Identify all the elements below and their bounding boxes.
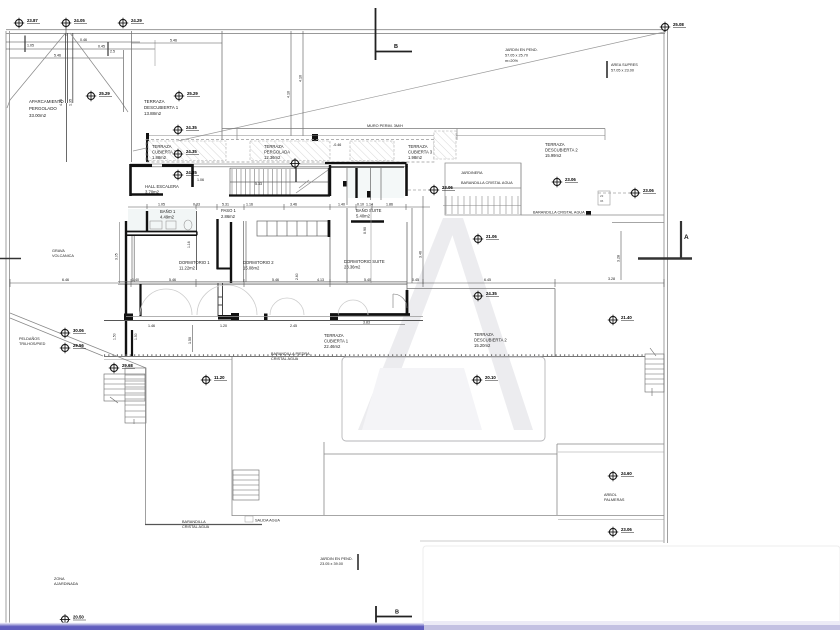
svg-text:CRISTAL AGUA: CRISTAL AGUA xyxy=(182,525,210,529)
svg-text:23.05 x 39.00: 23.05 x 39.00 xyxy=(320,562,343,566)
dashed leader to benchmark xyxy=(598,192,630,194)
svg-text:1.50: 1.50 xyxy=(113,333,117,340)
svg-text:TERRAZA: TERRAZA xyxy=(264,144,284,149)
svg-text:JARDIN EN PEND.: JARDIN EN PEND. xyxy=(320,557,353,561)
svg-text:4.13: 4.13 xyxy=(317,278,324,282)
svg-text:11.22m2: 11.22m2 xyxy=(179,266,196,271)
svg-text:5.33: 5.33 xyxy=(255,182,262,186)
wall house outer left xyxy=(125,221,127,284)
right inner edge of aparcamiento xyxy=(123,50,125,112)
jardinera louvre ticks xyxy=(443,196,521,214)
svg-text:1.86: 1.86 xyxy=(386,203,393,207)
vertical dim 8.46 right side xyxy=(620,231,622,280)
svg-text:06: 06 xyxy=(600,199,604,203)
white overlay card bottom right xyxy=(423,546,840,624)
right area hline y444 xyxy=(557,443,664,445)
site boundary top lines xyxy=(6,30,665,34)
svg-text:2.86m2: 2.86m2 xyxy=(221,214,236,219)
svg-text:CUBIERTA 3: CUBIERTA 3 xyxy=(408,150,433,155)
svg-text:DORMITORIO SUITE: DORMITORIO SUITE xyxy=(344,259,385,264)
garden boundary vertical x232 xyxy=(231,357,233,516)
interior dim row 2 xyxy=(148,324,297,328)
top-left dimension labels xyxy=(27,38,115,58)
benchmark labels top xyxy=(27,18,684,27)
short line right xyxy=(612,222,664,224)
svg-text:ARBOL: ARBOL xyxy=(604,493,617,497)
benchmark 23.06 bottom xyxy=(608,527,618,537)
stair top wall stub xyxy=(295,161,297,182)
pergola roof diagonals xyxy=(7,33,128,112)
svg-text:24.35: 24.35 xyxy=(186,170,197,175)
svg-text:5.40: 5.40 xyxy=(364,278,371,282)
grava volcanica label xyxy=(52,249,74,258)
label peldanos xyxy=(19,336,46,346)
svg-text:CRISTAL AGUA: CRISTAL AGUA xyxy=(271,357,299,361)
dorm1 left inner wall thin xyxy=(132,236,134,282)
left boundary tick xyxy=(0,258,21,260)
suite closet thin lines xyxy=(347,168,381,205)
svg-text:HALL ESCALERA: HALL ESCALERA xyxy=(145,184,179,189)
svg-text:5.40m2: 5.40m2 xyxy=(356,214,371,219)
svg-text:20.10: 20.10 xyxy=(485,375,496,380)
benchmark 30.06 xyxy=(60,328,70,338)
svg-text:11.20: 11.20 xyxy=(214,375,225,380)
svg-text:24.35: 24.35 xyxy=(486,291,497,296)
door arcs bedroom south wall xyxy=(140,285,368,315)
muro perimetral line xyxy=(222,128,605,130)
svg-text:5.46: 5.46 xyxy=(54,54,61,58)
svg-text:6.45: 6.45 xyxy=(484,278,491,282)
svg-text:JARDIN EN PEND.: JARDIN EN PEND. xyxy=(505,48,538,52)
svg-text:29.68: 29.68 xyxy=(122,363,133,368)
wall below hall xyxy=(130,193,163,196)
svg-text:23: 23 xyxy=(600,194,604,198)
svg-text:24.35: 24.35 xyxy=(186,149,197,154)
svg-text:24.29: 24.29 xyxy=(131,18,142,23)
svg-text:B: B xyxy=(395,610,399,616)
dimension labels row xyxy=(158,203,393,207)
svg-text:1.88m2: 1.88m2 xyxy=(152,155,167,160)
suite left wall thin xyxy=(346,208,348,283)
svg-text:BARANDILLA CRISTAL AGUA: BARANDILLA CRISTAL AGUA xyxy=(461,181,513,185)
benchmark 29.68 xyxy=(109,363,119,373)
driveway diagonal edge xyxy=(10,313,146,368)
pergola hatch box 3 xyxy=(350,141,394,161)
bano right thin wall xyxy=(196,211,198,270)
pergola hatched band outline xyxy=(146,140,434,163)
svg-text:BARANDILLA CRISTAL AGUA: BARANDILLA CRISTAL AGUA xyxy=(533,211,585,215)
room label terraza cubierta 3 xyxy=(408,144,433,160)
svg-text:1.40: 1.40 xyxy=(338,203,345,207)
svg-text:3.83: 3.83 xyxy=(363,321,370,325)
lower terrace rect right part xyxy=(407,289,555,357)
svg-text:30.06: 30.06 xyxy=(73,328,84,333)
suite closet posts xyxy=(343,181,347,187)
svg-text:BAÑO SUITE: BAÑO SUITE xyxy=(356,208,382,213)
svg-text:13.88m2: 13.88m2 xyxy=(144,111,162,116)
svg-text:1.35: 1.35 xyxy=(69,99,73,106)
stair box outline xyxy=(230,168,329,195)
zona ajardinada label xyxy=(54,577,79,586)
svg-text:TERRAZA: TERRAZA xyxy=(324,333,344,338)
svg-text:PASO 1: PASO 1 xyxy=(221,208,236,213)
benchmark 20.10 pool xyxy=(472,375,482,385)
benchmark 23.06 right of house xyxy=(429,185,439,195)
top-left dimension lines xyxy=(6,28,155,58)
lower terrace inner rect xyxy=(324,442,557,515)
svg-text:5.46: 5.46 xyxy=(169,278,176,282)
svg-text:24.05: 24.05 xyxy=(74,18,85,23)
svg-text:15.08m2: 15.08m2 xyxy=(243,266,260,271)
svg-text:DESCUBIERTA 2: DESCUBIERTA 2 xyxy=(474,338,507,343)
jardin en pend bottom label xyxy=(320,557,353,566)
top dim verticals 4.10 xyxy=(291,31,303,136)
small planter box right xyxy=(598,191,610,205)
garden boundary left xyxy=(145,368,147,525)
bedroom window bottom wall thin lines xyxy=(118,282,407,285)
second roof edge line xyxy=(146,135,605,137)
room label hall escalera xyxy=(145,184,179,195)
svg-text:0.46: 0.46 xyxy=(80,38,87,42)
wall below bano1 double xyxy=(126,231,197,233)
svg-text:SALIDA AGUA: SALIDA AGUA xyxy=(255,519,280,523)
terrace inner wall xyxy=(139,284,141,316)
svg-text:1.16: 1.16 xyxy=(246,203,253,207)
svg-text:25.08: 25.08 xyxy=(673,22,684,27)
svg-text:1.20: 1.20 xyxy=(220,324,227,328)
svg-text:m=20%: m=20% xyxy=(505,59,519,63)
wall post end of barandilla xyxy=(586,211,591,216)
barandilla cristal agua line xyxy=(521,214,664,216)
svg-text:24.60: 24.60 xyxy=(621,471,632,476)
svg-text:DORMITORIO 2: DORMITORIO 2 xyxy=(243,260,274,265)
svg-text:3.46: 3.46 xyxy=(290,203,297,207)
benchmark 21.06 xyxy=(473,234,483,244)
terraza descubierta 1 right line xyxy=(221,31,223,140)
benchmark 24.35 upper xyxy=(173,125,183,135)
svg-text:0.90: 0.90 xyxy=(363,227,367,234)
svg-text:21.40: 21.40 xyxy=(621,315,632,320)
svg-text:0.45: 0.45 xyxy=(412,278,419,282)
room label dormitorio suite xyxy=(344,259,385,270)
benchmark small 24.05 top of stairs xyxy=(290,158,300,168)
svg-text:5.46: 5.46 xyxy=(170,39,177,43)
dorm2/suite divider xyxy=(329,237,331,282)
svg-text:GRAVA: GRAVA xyxy=(52,249,65,253)
svg-text:5.46: 5.46 xyxy=(272,278,279,282)
svg-text:6.46: 6.46 xyxy=(62,278,69,282)
svg-text:ZONA: ZONA xyxy=(54,577,65,581)
pool xyxy=(342,357,545,441)
room label terraza descubierta 1 xyxy=(144,99,179,116)
svg-text:1.05: 1.05 xyxy=(27,44,34,48)
salida agua xyxy=(245,516,253,522)
svg-text:0.10: 0.10 xyxy=(357,203,364,207)
svg-text:1.14: 1.14 xyxy=(366,203,373,207)
benchmark 23.06 in terraza descubierta 2 xyxy=(552,177,562,187)
room label terraza descubierta 2 upper xyxy=(545,142,578,158)
terrace left wall twin xyxy=(131,330,133,356)
svg-text:CUBIERTA 1: CUBIERTA 1 xyxy=(324,339,349,344)
benchmark 11.20 xyxy=(201,375,211,385)
svg-text:BARANDILLA: BARANDILLA xyxy=(182,520,206,524)
arbol palmeras right section xyxy=(558,451,664,453)
svg-text:23.06: 23.06 xyxy=(643,188,654,193)
svg-text:0.33: 0.33 xyxy=(193,203,200,207)
room label terraza cubierta 1 xyxy=(324,333,349,349)
svg-text:15.20m2: 15.20m2 xyxy=(474,343,491,348)
suite dim 3.83 xyxy=(330,324,405,326)
svg-text:23.36m2: 23.36m2 xyxy=(344,265,361,270)
suite door arc xyxy=(393,294,407,308)
svg-text:3.05: 3.05 xyxy=(115,253,119,260)
closet right thick wall xyxy=(328,220,331,237)
svg-text:4.49m2: 4.49m2 xyxy=(160,215,175,220)
svg-text:2.45: 2.45 xyxy=(290,324,297,328)
svg-text:24.35: 24.35 xyxy=(186,125,197,130)
wall hall left xyxy=(129,164,132,196)
faint bottom fence line xyxy=(420,540,664,542)
right stair xyxy=(645,348,664,396)
section A marker xyxy=(638,221,692,259)
vertical dim 3.46 right of suite xyxy=(422,196,424,284)
suite top wall double xyxy=(325,162,407,164)
benchmark 20.50 bottom xyxy=(60,614,70,624)
svg-text:1.40: 1.40 xyxy=(132,278,139,282)
wall paso right xyxy=(230,222,232,283)
room label dormitorio 1 xyxy=(179,260,210,271)
site boundary right double line xyxy=(664,28,668,543)
svg-text:PALMERAS: PALMERAS xyxy=(604,498,625,502)
svg-text:1.05: 1.05 xyxy=(158,203,165,207)
chimney ladder xyxy=(218,283,223,316)
svg-text:DORMITORIO 1: DORMITORIO 1 xyxy=(179,260,210,265)
jardinera box xyxy=(445,163,521,215)
closet dorm2 xyxy=(257,221,328,236)
exterior switchback stair xyxy=(104,368,146,424)
bath fixtures xyxy=(150,220,192,230)
main dimension row under bedrooms xyxy=(10,279,664,287)
svg-text:1.06: 1.06 xyxy=(197,178,204,182)
jardin en pend label xyxy=(505,48,538,63)
pergola hatch box 1 xyxy=(148,141,226,161)
line below palmeras xyxy=(558,519,664,521)
svg-text:AJARDINADA: AJARDINADA xyxy=(54,582,79,586)
dorm divider wall xyxy=(244,221,247,282)
barandilla bottom left xyxy=(145,524,262,526)
room label terraza pergolada xyxy=(264,144,290,160)
site boundary left double line xyxy=(6,31,10,626)
svg-text:TERRAZA: TERRAZA xyxy=(474,332,494,337)
suite right wall thin xyxy=(406,222,408,290)
svg-text:25.29: 25.29 xyxy=(187,91,198,96)
room label paso 1 xyxy=(221,208,236,219)
suite bottom wall xyxy=(330,313,410,316)
bath area wash xyxy=(128,209,196,231)
terrace inner line xyxy=(126,316,423,318)
terrace left wall xyxy=(125,284,127,356)
svg-text:AREA SUPRES: AREA SUPRES xyxy=(611,63,638,67)
room label terraza cubierta 2 xyxy=(152,144,177,160)
room label terraza descubierta 2 lower xyxy=(474,332,507,348)
svg-text:BAÑO 1: BAÑO 1 xyxy=(160,209,176,214)
room label bano suite xyxy=(356,208,382,219)
svg-text:4.10: 4.10 xyxy=(287,91,291,98)
svg-text:3.28: 3.28 xyxy=(608,277,615,281)
svg-text:20.50: 20.50 xyxy=(73,615,84,620)
room label aparcamiento xyxy=(29,99,64,118)
svg-text:-0.46: -0.46 xyxy=(333,143,341,147)
suite right wall thick lower xyxy=(406,290,409,315)
svg-text:PERGOLADA: PERGOLADA xyxy=(264,150,290,155)
svg-text:3.28: 3.28 xyxy=(617,255,621,262)
svg-text:12.36m2: 12.36m2 xyxy=(264,155,281,160)
pergola hatch box 2 xyxy=(250,141,330,161)
benchmark 23.06 far right xyxy=(630,188,640,198)
stair right thick wall xyxy=(329,165,331,196)
svg-text:5.31: 5.31 xyxy=(222,203,229,207)
svg-text:23.06: 23.06 xyxy=(565,177,576,182)
wall bano left xyxy=(146,211,148,232)
svg-text:2.60: 2.60 xyxy=(295,273,299,280)
wall house right top xyxy=(405,164,408,196)
svg-text:23.06: 23.06 xyxy=(621,527,632,532)
watermark letter A xyxy=(358,218,533,430)
upper stair treads xyxy=(232,169,290,195)
svg-text:PELDAÑOS: PELDAÑOS xyxy=(19,336,40,341)
svg-text:TERRAZA: TERRAZA xyxy=(144,99,165,104)
benchmark 25.29 left xyxy=(86,91,96,101)
room label bano 1 xyxy=(160,209,176,220)
svg-text:TERRAZA: TERRAZA xyxy=(408,144,428,149)
leader to 23.06 right of house xyxy=(408,189,430,191)
top wall thick segments xyxy=(130,164,193,167)
benchmark 29.56 xyxy=(60,343,70,353)
svg-text:MURO PERIM. 3M/H: MURO PERIM. 3M/H xyxy=(367,124,403,128)
svg-text:DESCUBIERTA 2: DESCUBIERTA 2 xyxy=(545,148,578,153)
bano suite counter xyxy=(351,220,384,223)
svg-text:23.06: 23.06 xyxy=(442,185,453,190)
aparcamiento centre post lines xyxy=(66,33,73,162)
room label dormitorio 2 xyxy=(243,260,274,271)
svg-text:2.5: 2.5 xyxy=(110,50,115,54)
dim 5.46 top of terraza 1 xyxy=(132,42,223,44)
svg-text:1.16: 1.16 xyxy=(187,241,191,248)
section B top marker xyxy=(376,8,413,60)
pergola hatch box 4 tall xyxy=(434,131,456,159)
benchmark 24.35 in band xyxy=(173,149,183,159)
suite closet wash xyxy=(348,168,404,198)
benchmark 25.29 right xyxy=(174,91,184,101)
svg-text:3.46: 3.46 xyxy=(419,251,423,258)
svg-text:1.50: 1.50 xyxy=(134,333,138,340)
svg-text:25.29: 25.29 xyxy=(99,91,110,96)
terrace top dark line xyxy=(104,320,423,322)
svg-text:TRILHOS/PIED: TRILHOS/PIED xyxy=(19,342,46,346)
area sup label xyxy=(606,61,608,78)
svg-text:DESCUBIERTA 1: DESCUBIERTA 1 xyxy=(144,105,179,110)
short inner line xyxy=(154,40,156,66)
svg-text:15.99m2: 15.99m2 xyxy=(545,153,562,158)
svg-text:BARANDILLA PIEDRA: BARANDILLA PIEDRA xyxy=(271,352,310,356)
wall suite left xyxy=(355,168,357,198)
stair bottom edge xyxy=(229,194,330,196)
bottom terrace line xyxy=(232,515,664,517)
svg-text:VOLCANICA: VOLCANICA xyxy=(52,254,74,258)
hall benchmark 24.35 xyxy=(173,170,183,180)
wall hall right xyxy=(191,164,194,187)
svg-text:21.06: 21.06 xyxy=(486,234,497,239)
svg-text:22.46m2: 22.46m2 xyxy=(324,344,341,349)
svg-text:29.56: 29.56 xyxy=(73,343,84,348)
benchmark 21.40 xyxy=(608,315,618,325)
wall post at muro line xyxy=(312,134,318,143)
svg-text:TERRAZA: TERRAZA xyxy=(152,144,172,149)
south wall black posts xyxy=(124,314,133,321)
house top window wall thin lines xyxy=(130,164,408,167)
jardinera inner line xyxy=(443,187,521,189)
big diagonal garden slope line xyxy=(133,32,664,151)
svg-text:B: B xyxy=(394,44,398,50)
wall paso left xyxy=(216,219,218,269)
svg-text:JARDINERA: JARDINERA xyxy=(461,171,483,175)
svg-text:57.05 x 23.00: 57.05 x 23.00 xyxy=(611,69,634,73)
svg-text:33.00m2: 33.00m2 xyxy=(29,113,47,118)
stair lower left xyxy=(233,470,259,500)
svg-text:1.50: 1.50 xyxy=(188,337,192,344)
svg-text:3.70m2: 3.70m2 xyxy=(145,190,160,195)
dim extension line left xyxy=(119,222,121,283)
svg-text:0.45: 0.45 xyxy=(98,45,105,49)
barandilla piedra line with balusters xyxy=(104,356,645,358)
stair direction arrow xyxy=(296,170,328,193)
svg-text:1.46: 1.46 xyxy=(148,324,155,328)
svg-text:A: A xyxy=(684,234,689,241)
svg-text:4.10: 4.10 xyxy=(299,75,303,82)
interior dimension row xyxy=(128,204,430,210)
suite inner line xyxy=(370,208,372,283)
benchmark 24.35 lower xyxy=(473,291,483,301)
lot line between aparcamiento and terraza xyxy=(131,31,133,162)
svg-text:PERGOLADO: PERGOLADO xyxy=(29,106,57,111)
stair right edge xyxy=(328,168,330,196)
section B bottom marker xyxy=(376,606,412,628)
svg-text:23.87: 23.87 xyxy=(27,18,38,23)
wall paso jog xyxy=(217,268,233,270)
top benchmarks row xyxy=(14,18,670,32)
svg-text:57.05 x 25.70: 57.05 x 25.70 xyxy=(505,54,528,58)
svg-text:1.98m2: 1.98m2 xyxy=(408,155,423,160)
svg-text:APARCAMIENTO: APARCAMIENTO xyxy=(29,99,64,104)
svg-text:TERRAZA: TERRAZA xyxy=(545,142,565,147)
band left post xyxy=(146,133,149,162)
